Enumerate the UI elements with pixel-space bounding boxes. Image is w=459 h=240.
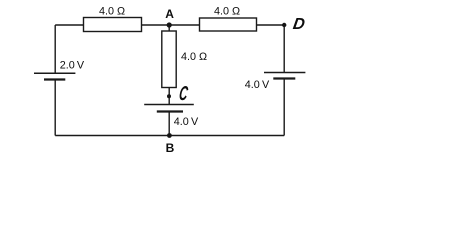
svg-text:4.0 Ω: 4.0 Ω (181, 51, 207, 63)
svg-text:4.0 Ω: 4.0 Ω (99, 5, 125, 17)
svg-text:4.0 V: 4.0 V (174, 116, 199, 128)
svg-text:A: A (165, 7, 174, 21)
svg-text:4.0 V: 4.0 V (245, 79, 270, 91)
svg-text:2.0 V: 2.0 V (60, 60, 85, 72)
svg-text:B: B (166, 141, 175, 155)
svg-text:4.0 Ω: 4.0 Ω (214, 5, 240, 17)
